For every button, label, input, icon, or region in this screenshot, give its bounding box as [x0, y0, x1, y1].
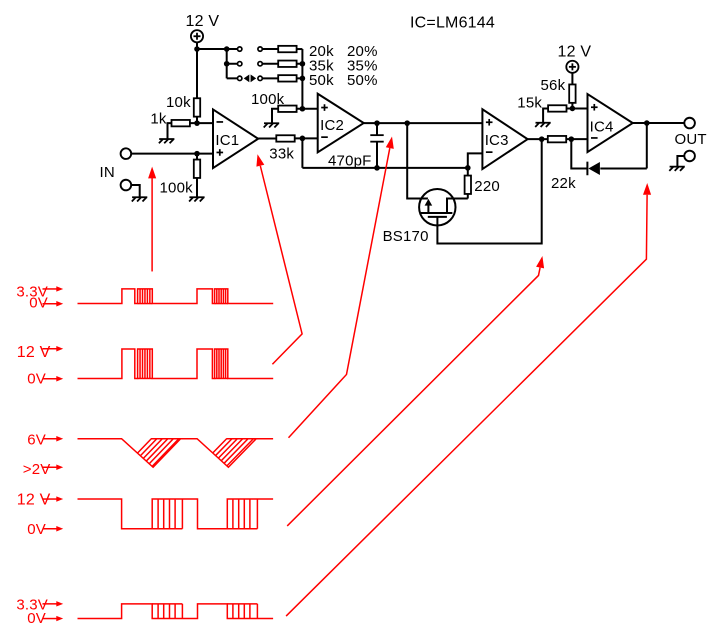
op-amp IC4 [588, 94, 633, 152]
node row3 right [300, 76, 306, 82]
annotation arrow A to IN stage [151, 178, 153, 271]
resistor 220 [465, 176, 471, 194]
level arrow >2V [43, 466, 58, 468]
wire row2 right [297, 63, 303, 65]
wire row3 to resistor [262, 77, 278, 79]
wire IC1 output [258, 137, 276, 139]
waveform W5 3.3V output PWM [78, 604, 274, 619]
ground at IC2+ 100k [264, 123, 280, 127]
node IC4 output [644, 120, 650, 126]
svg-text:50k: 50k [309, 72, 334, 89]
level arrow 0V w4 [43, 528, 58, 530]
wire 56k to node [571, 103, 573, 109]
hatch lines triangle V2 [226, 438, 256, 440]
terminal IN [121, 148, 132, 159]
switch contact row1 left [238, 47, 242, 51]
wire power lead [196, 42, 198, 49]
power +12V symbol left [191, 30, 203, 42]
level arrow 12V w4 [43, 498, 58, 500]
wire IC2 output to IC3 + [364, 122, 483, 124]
svg-text:12 V: 12 V [17, 492, 51, 509]
waveform W3 triangle with hatch [78, 439, 274, 468]
node IC2 + input [300, 106, 306, 112]
op-amp IC2 [318, 94, 364, 153]
wire 12V to 10k [196, 49, 198, 98]
annotation arrow D to comparator output node [536, 256, 544, 268]
diode D1 [588, 162, 600, 175]
wire IN stub hook [131, 185, 139, 197]
node IC1 + input [194, 151, 200, 157]
level arrow 6V [43, 438, 58, 440]
wire switch bus vertical [226, 49, 228, 78]
wire row2 stub [227, 63, 238, 65]
node switch bus row2 [224, 61, 230, 67]
resistor 22k [548, 136, 566, 142]
svg-text:10k: 10k [166, 94, 191, 111]
waveform W2 12V PWM [78, 349, 274, 378]
wire 15k to ground [543, 108, 548, 122]
svg-text:IC4: IC4 [590, 118, 614, 135]
resistor 20k [278, 46, 296, 52]
svg-text:1k: 1k [150, 111, 167, 128]
node switch bus row1 [224, 46, 230, 52]
wire feedback right vertical [646, 123, 648, 168]
wire feedback bottom run [302, 167, 467, 169]
op-amp IC1 [213, 109, 258, 168]
switch contact row1 right [258, 47, 262, 51]
op-amp IC3 [482, 109, 527, 169]
node IC2 inverting input [300, 136, 306, 142]
svg-text:0V: 0V [27, 521, 46, 538]
node diode feedback junction [569, 136, 575, 142]
node IC1 inverting input [194, 120, 200, 126]
power +12V symbol right [566, 61, 578, 73]
wire feedback bottom [600, 167, 647, 169]
wire 220 bottom to drain [467, 194, 469, 199]
wire diode to junction [571, 139, 587, 168]
wire IC2 out to gate [407, 123, 428, 198]
wire row2 to resistor [262, 63, 278, 65]
ground OUT stub [669, 167, 685, 171]
wire node to 100k [196, 154, 198, 160]
terminal OUT [684, 118, 695, 129]
svg-text:100k: 100k [160, 179, 194, 196]
svg-text:IC2: IC2 [320, 117, 344, 134]
node capacitor bottom [374, 165, 380, 171]
svg-text:12 V: 12 V [186, 13, 220, 30]
svg-text:>2V: >2V [23, 461, 51, 478]
svg-text:50%: 50% [347, 72, 378, 89]
ground under 1k [159, 139, 175, 143]
annotation arrow C to IC2 output node [386, 136, 394, 148]
annotation arrow B to IC1 output [256, 154, 264, 166]
wire 12V rail to switch row 1 [197, 48, 238, 50]
node gate branch [404, 120, 410, 126]
resistor 1k [172, 120, 190, 126]
resistor 10k [194, 98, 200, 116]
resistor 50k [278, 75, 296, 81]
wire 220 top [467, 168, 469, 176]
wire 1k node to IC1 - [190, 122, 213, 124]
level arrow 0V w5 [43, 618, 58, 620]
svg-text:OUT: OUT [675, 131, 707, 148]
wire 33k to IC2 - [295, 137, 318, 139]
wire IC2 feedback drop [301, 138, 303, 168]
switch contact row3 right [258, 76, 262, 80]
switch contact row3 left [238, 76, 242, 80]
wire row1 to resistor [262, 48, 278, 50]
terminal OUT ground stub [684, 151, 695, 162]
svg-text:33k: 33k [269, 146, 294, 163]
svg-text:12 V: 12 V [17, 344, 51, 361]
capacitor 470pF [376, 123, 378, 135]
waveform W4 12V inverted PWM [78, 499, 274, 529]
node IC3 output [539, 136, 545, 142]
terminal IN ground stub [121, 180, 132, 191]
ground IN stub [132, 197, 148, 201]
wire OUT stub hook [677, 156, 684, 166]
node capacitor top [374, 120, 380, 126]
resistor 56k [569, 84, 575, 102]
svg-text:IC=LM6144: IC=LM6144 [410, 15, 495, 32]
wire row3 right [297, 77, 303, 79]
wire row1 right [297, 48, 303, 50]
ground under input 100k [189, 197, 205, 201]
svg-text:IC3: IC3 [485, 132, 509, 149]
wire IN to IC1 + [131, 153, 213, 155]
level arrow 3.3V w5 [43, 603, 58, 605]
transistor Q1 BS170 [419, 189, 468, 225]
node 220 / IC3 - junction [465, 165, 471, 171]
svg-text:12 V: 12 V [558, 44, 592, 61]
svg-text:22k: 22k [551, 175, 576, 192]
wire BS170 source to IC3 output node [437, 139, 541, 243]
level arrow 3.3V [43, 288, 58, 290]
ground at 15k [535, 123, 551, 127]
svg-text:IN: IN [100, 164, 115, 181]
wire row3 stub [227, 77, 238, 79]
wire 100k to IC2 + [297, 108, 318, 110]
node row2 right [300, 61, 306, 67]
wire 22k to IC4 - [566, 138, 587, 140]
resistor 33k [276, 135, 294, 141]
wire 100k left to ground [272, 109, 278, 123]
svg-text:BS170: BS170 [383, 228, 429, 245]
node 12V rail [194, 46, 200, 52]
svg-text:470pF: 470pF [328, 153, 372, 170]
svg-text:220: 220 [474, 178, 500, 195]
svg-text:6V: 6V [27, 432, 46, 449]
hatch lines triangle V1 [151, 438, 181, 440]
svg-text:15k: 15k [517, 95, 542, 112]
annotation arrow E to output stage [643, 183, 651, 195]
wire 100k to ground [196, 178, 198, 197]
jumper plug inserted (row3) [244, 74, 250, 82]
wire IC3 output [528, 138, 549, 140]
wire select bus right vertical [301, 49, 303, 109]
wire 56k to power [571, 73, 573, 85]
wire 10k to node [196, 117, 198, 124]
waveform W1 3.3V PWM input [78, 289, 274, 304]
wire IC3 - input [468, 153, 483, 168]
svg-text:0V: 0V [29, 294, 48, 311]
wire 1k to ground [168, 123, 172, 139]
level arrow 0V w1 [43, 303, 58, 305]
level arrow 0V w2 [43, 378, 58, 380]
switch contact row2 left [238, 62, 242, 66]
level arrow 12V w2 [43, 348, 58, 350]
wire 15k to IC4 + [567, 107, 588, 109]
svg-text:IC1: IC1 [215, 132, 239, 149]
resistor 15k [548, 105, 566, 111]
resistor 100k IC2+ [278, 106, 296, 112]
switch contact row2 right [258, 62, 262, 66]
svg-text:56k: 56k [541, 77, 566, 94]
resistor 35k [278, 61, 296, 67]
node 56k/15k junction [570, 106, 576, 112]
wire IC4 output [633, 122, 685, 124]
resistor 100k input bias [194, 160, 200, 178]
